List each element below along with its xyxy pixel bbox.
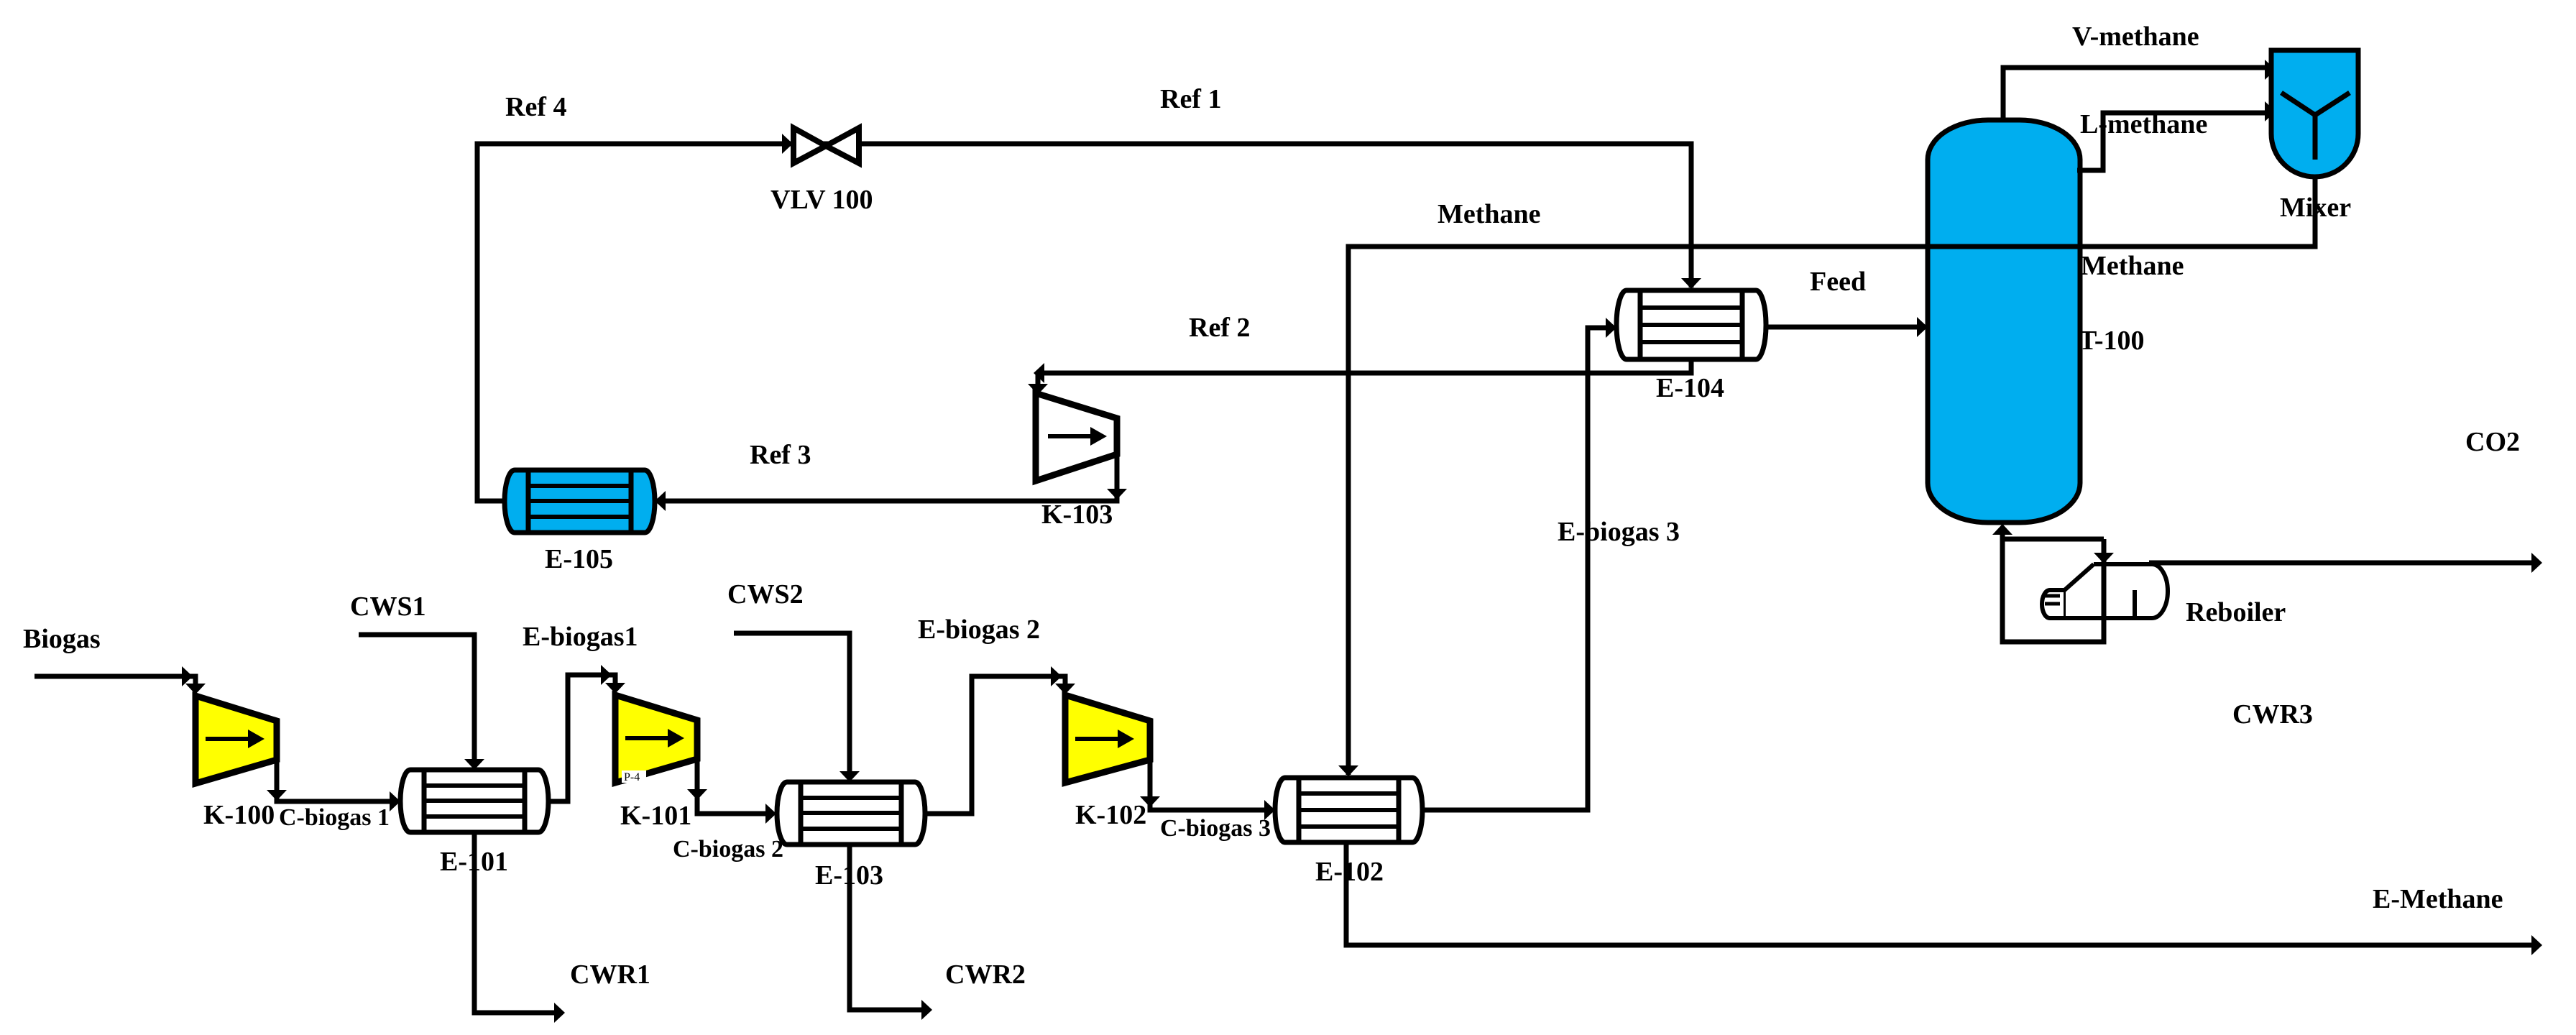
reboiler kettle: [2042, 564, 2168, 618]
wire C-biogas 1 from K-100 to E-101: [277, 760, 397, 801]
arrow Feed into column: [1917, 317, 1928, 337]
svg-text:K-101: K-101: [620, 801, 691, 831]
svg-text:C-biogas 2: C-biogas 2: [673, 836, 783, 862]
compressor K-101: [615, 695, 697, 783]
svg-text:E-104: E-104: [1656, 373, 1724, 403]
wire V-methane from column top to mixer: [2003, 68, 2268, 120]
wire K-103 outlet to Ref 3: [655, 453, 1117, 501]
label P-4 on K-101: [622, 770, 646, 783]
wire Ref 2 from E-104 bottom to K-103: [1038, 359, 1691, 373]
svg-text:K-103: K-103: [1041, 500, 1113, 530]
compressor K-102: [1065, 695, 1150, 783]
arrow CWS2 into E-103 top: [839, 771, 860, 782]
arrow into K-103 top: [1028, 384, 1048, 395]
arrow L-methane into mixer: [2265, 101, 2276, 121]
arrow K-103 outlet pointing down: [1107, 489, 1127, 500]
wire E-Methane from E-102 bottom: [1346, 842, 2539, 945]
svg-text:Methane: Methane: [2081, 251, 2184, 281]
svg-text:Mixer: Mixer: [2280, 193, 2351, 223]
arrow CO2: [2531, 553, 2542, 573]
svg-text:CWS2: CWS2: [727, 579, 804, 609]
svg-text:C-biogas 1: C-biogas 1: [279, 804, 390, 831]
arrow down at K-101 outlet: [687, 789, 707, 800]
wire Biogas feed: [34, 676, 195, 690]
arrow CWS1 into E-101 top: [464, 759, 484, 770]
wire column bottoms to reboiler inlet: [2002, 537, 2104, 542]
arrow CWR1: [554, 1003, 565, 1023]
svg-text:P-4: P-4: [624, 771, 640, 783]
svg-text:VLV 100: VLV 100: [770, 185, 873, 215]
wire C-biogas 2 from K-101 to E-103: [697, 759, 773, 814]
arrow into E-102 left: [1264, 800, 1275, 820]
arrow into E-101 left: [390, 791, 400, 811]
wire Feed from E-104 to column: [1766, 325, 1925, 330]
arrow into E-103 left: [765, 804, 776, 824]
wire reboiler return loop to column bottom: [2002, 527, 2104, 642]
column T-100: [1928, 120, 2080, 523]
svg-text:CO2: CO2: [2465, 427, 2520, 457]
svg-text:E-101: E-101: [440, 847, 508, 877]
svg-text:Feed: Feed: [1810, 267, 1866, 297]
arrow into valve (Ref 4): [782, 134, 793, 154]
arrow E-Methane: [2531, 935, 2542, 955]
arrow down at K-100 outlet: [267, 790, 287, 801]
wire Methane from mixer outlet across column down to E-102: [1348, 177, 2315, 775]
svg-text:E-Methane: E-Methane: [2373, 884, 2503, 914]
arrow Biogas right: [182, 666, 193, 686]
arrow Biogas down into K-100: [185, 684, 206, 694]
svg-text:T-100: T-100: [2079, 326, 2145, 356]
arrow down into K-101: [605, 683, 625, 694]
svg-text:Ref 3: Ref 3: [750, 440, 811, 470]
arrow E-biogas1 right: [601, 665, 612, 685]
valve VLV 100: [793, 128, 859, 163]
svg-text:Methane: Methane: [1437, 199, 1541, 229]
arrow E-biogas 2 right: [1051, 666, 1062, 686]
wire C-biogas 3 from K-102 to E-102: [1150, 760, 1272, 810]
arrow Ref 3 into E-105 pointing left: [655, 491, 666, 511]
heat exchanger E-102: [1275, 778, 1422, 842]
arrow down at K-102 outlet: [1140, 796, 1160, 807]
heat exchanger E-105 (blue): [505, 470, 655, 533]
svg-text:Biogas: Biogas: [23, 624, 101, 654]
svg-text:K-100: K-100: [203, 800, 275, 830]
arrow down into K-102: [1055, 684, 1075, 694]
svg-text:C-biogas 3: C-biogas 3: [1160, 815, 1271, 842]
wire CWS1: [359, 635, 474, 767]
svg-text:E-biogas 2: E-biogas 2: [918, 615, 1040, 645]
arrow boilup into column bottom: [1992, 524, 2012, 535]
heat exchanger E-104: [1616, 290, 1766, 359]
svg-text:Reboiler: Reboiler: [2186, 597, 2286, 627]
svg-text:K-102: K-102: [1075, 800, 1146, 830]
arrow CWR2: [921, 1000, 932, 1020]
wire CO2 from reboiler: [2149, 561, 2539, 566]
wire CWR1: [474, 832, 562, 1013]
arrow Ref 2 end pointing left: [1034, 363, 1044, 383]
wire CWS2: [734, 633, 850, 779]
svg-text:E-105: E-105: [545, 544, 613, 574]
svg-text:L-methane: L-methane: [2080, 109, 2207, 139]
compressor K-103 (white): [1036, 393, 1117, 481]
wire E-biogas1 from E-101 to K-101: [548, 675, 615, 801]
wire K-103 inlet stub: [1036, 373, 1041, 392]
wire E-biogas 3 from E-102 right up to E-104 left: [1422, 328, 1614, 810]
svg-text:CWR2: CWR2: [945, 960, 1026, 990]
arrow into reboiler top: [2094, 553, 2114, 563]
wire L-methane from column shoulder to mixer: [2077, 113, 2268, 170]
compressor K-100: [195, 696, 277, 783]
svg-text:E-biogas 3: E-biogas 3: [1558, 517, 1680, 547]
svg-text:E-biogas1: E-biogas1: [523, 622, 638, 652]
svg-text:CWR1: CWR1: [570, 960, 650, 990]
wire E-biogas 2 from E-103 to K-102: [925, 676, 1065, 814]
svg-text:Ref 4: Ref 4: [505, 92, 566, 122]
arrow E-biogas 3 into E-104: [1606, 318, 1616, 338]
svg-text:CWS1: CWS1: [350, 592, 426, 622]
svg-text:CWR3: CWR3: [2232, 699, 2313, 730]
heat exchanger E-101: [400, 770, 548, 832]
mixer vessel: [2271, 50, 2358, 177]
svg-text:Ref 1: Ref 1: [1160, 84, 1221, 114]
svg-text:E-103: E-103: [815, 860, 883, 891]
wire Ref 4 / Ref 1 from E-105 up and across to E-104: [477, 144, 1691, 501]
heat exchanger E-103: [777, 782, 925, 845]
wire CWR2: [850, 845, 929, 1010]
arrow into E-104 top (Ref 1): [1681, 278, 1701, 289]
arrow Methane into E-102 top: [1338, 765, 1358, 776]
svg-text:E-102: E-102: [1315, 857, 1384, 887]
arrow V-methane into mixer: [2265, 60, 2276, 80]
svg-text:Ref 2: Ref 2: [1189, 313, 1250, 343]
svg-text:V-methane: V-methane: [2072, 22, 2199, 52]
